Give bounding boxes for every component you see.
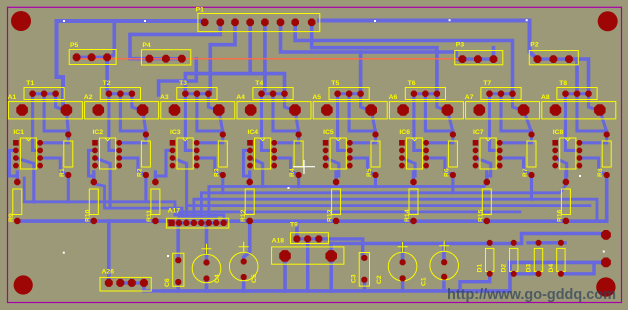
wire R8 bottom down [605,175,608,202]
connector T1 [24,88,64,100]
pad A7-1 [474,104,486,116]
wire C6 top riser [176,221,180,260]
pad IC3-6 [194,148,200,154]
pad T3-2 [194,91,200,97]
svg-text:IC6: IC6 [399,129,410,136]
wire T4 pad3 to A4 pad2 [285,94,294,110]
resistor R1 [64,141,73,167]
svg-text:R15: R15 [477,209,484,222]
svg-text:T1: T1 [26,80,34,87]
svg-text:IC3: IC3 [170,129,181,136]
pad A6-1 [397,104,409,116]
wire IC6 pad3 to R14 top [402,158,415,182]
capacitor C4 body [192,254,221,283]
connector T8 [557,88,597,100]
pad R8 bottom [604,172,610,178]
svg-text:R14: R14 [404,209,411,222]
pad IC2-1 [92,140,98,146]
pad IC2-2 [92,148,98,154]
svg-text:T5: T5 [331,80,339,87]
wire T5 pad2 to R5 [349,94,375,135]
pad R3 bottom [220,172,226,178]
pad T6-1 [411,91,417,97]
pad R14 top [410,179,416,185]
wire R2 bottom down [144,175,147,199]
svg-text:A26: A26 [102,269,115,276]
wire IC2 pad5 to R2 top [119,135,146,143]
wire T1 pad1 to IC1 pad6 [33,94,41,151]
pad R6 top [450,132,456,138]
svg-text:IC5: IC5 [323,129,334,136]
resistor R15 [482,189,491,215]
wire T6 pad3 to A6 pad2 [437,94,446,110]
relay A18 [272,247,344,264]
wire P4 pads link [149,57,181,60]
resistor R2 [141,141,150,167]
pad IC6-5 [423,140,429,146]
pad P4-1 [146,55,154,63]
wire R15 top riser [485,172,488,182]
wire D4 bottom east [561,262,594,273]
wire T8 pad3 to A8 pad2 [589,94,598,110]
pad T5-2 [346,91,352,97]
wire R7 bottom down [530,175,533,199]
wire R3 bottom down [221,175,224,193]
wire P1 pad7 to T7 pad3 [295,22,512,93]
connector T5 [329,88,369,100]
svg-text:D2: D2 [501,264,508,273]
svg-text:R8: R8 [597,168,604,177]
wire P5 pad3 to T2 pad1 [107,57,109,93]
pad T4-1 [258,91,264,97]
wire IC4 pad5 to R4 top [274,135,298,143]
wire R11 top riser [154,172,157,182]
pad A26-4 [140,279,148,287]
pad A18-1 [279,250,291,262]
wire IC5 pad5 to R5 top [350,135,376,143]
pad IC3-1 [170,140,176,146]
connector T2 [100,88,140,100]
svg-text:C1: C1 [421,277,428,286]
svg-text:IC1: IC1 [13,129,24,136]
relay A7 [466,102,540,119]
wire IC3 to R11 top [155,150,172,182]
svg-text:R11: R11 [146,210,153,222]
svg-text:T4: T4 [255,80,263,87]
svg-text:C2: C2 [376,275,383,284]
pad T2-1 [106,91,112,97]
pad R12 bottom [247,218,253,224]
wire T7 pads link [490,92,513,95]
wire C3 bottom drop [363,280,366,291]
resistor R9 [13,189,22,215]
wire R14 top riser [412,172,415,182]
pad R7 bottom [529,172,535,178]
pad T3-1 [182,91,188,97]
pad right lower [601,258,611,268]
pad IC5-4 [323,163,329,169]
pad R5 top [373,132,379,138]
wire to right pad lower [510,261,606,265]
pad IC8-6 [577,148,583,154]
capacitor C5 body [229,252,258,281]
connector A26 [100,277,151,291]
wire T9 pads link [297,237,319,240]
pad A8-1 [550,104,562,116]
svg-text:A7: A7 [465,94,474,101]
wire T4 pad2 to R4 [273,94,299,135]
svg-text:T8: T8 [559,80,567,87]
pad P1-5 [261,19,269,27]
wire T7 pad3 to A7 pad2 [513,94,522,110]
pad IC7-8 [497,163,503,169]
wire T3 pad3 to A3 pad2 [208,94,216,110]
wire C4 bottom drop [205,279,209,291]
pad P1-4 [246,19,254,27]
svg-text:http://www.go-gddq.com: http://www.go-gddq.com [447,286,616,303]
pad P4-3 [178,55,186,63]
wire T4 pad1 to IC4 pad6 [262,94,275,151]
wire cap-diode bus to right pad upper [331,234,606,244]
wire P3 pads link [462,57,493,60]
wire T8 pad3 riser [578,59,589,94]
svg-text:P2: P2 [530,42,539,49]
wire T5 pad1 to IC5 pad6 [338,94,350,151]
pad T6-3 [434,91,440,97]
wire T2 pad3 to A2 pad2 [132,94,141,110]
wire IC7 pad7 to R7 bottom [500,158,532,175]
pad C4 + [204,260,210,266]
wire T4 pads link [262,92,285,95]
pad D2 bottom [511,271,517,277]
wire top layer P5 to P3 [77,58,463,60]
pad T9-3 [315,235,322,242]
wire A18 pad1 drop [283,256,287,291]
wire T7 pad1 to IC7 pad6 [490,94,500,151]
wire T5 pads link [338,92,361,95]
connector T6 [405,88,445,100]
pad D4 bottom [558,271,564,277]
wire T6 pads link [414,92,437,95]
pad T8-1 [562,91,568,97]
pad P1-1 [201,19,209,27]
pad R11 top [152,179,158,185]
pad A5-2 [365,104,377,116]
wire A7 pad2 to R7 top [524,110,532,132]
relay A4 [237,102,311,119]
svg-text:P1: P1 [196,7,205,14]
pad IC7-1 [473,140,479,146]
wire IC1 to R9 top [9,150,17,182]
pad D1 top [487,240,493,246]
pad T9-1 [293,235,300,242]
pad IC4-3 [247,155,253,161]
pad IC5-2 [323,148,329,154]
svg-text:P3: P3 [456,42,465,49]
pad IC8-7 [577,155,583,161]
wire A17 pad4 fan [194,199,597,223]
wire T9 pad1 riser [295,221,298,239]
ic IC7 body [480,138,496,169]
pad IC7-2 [473,148,479,154]
pad T5-1 [334,91,340,97]
wire T5 pad3 to A5 pad2 [361,94,370,110]
svg-text:IC8: IC8 [553,129,564,136]
wire A17 pad8 fan west [24,178,224,223]
resistor R10 [89,189,98,215]
capacitor C6 [173,253,184,286]
pad T1-2 [41,91,47,97]
mounting hole bottom-left [14,275,33,294]
pad C1 + [441,259,447,265]
wire A3 pad2 to R3 top [219,110,223,132]
pad A1-1 [16,104,28,116]
pad A26-1 [105,279,113,287]
pad A8-2 [594,104,606,116]
wire IC7 pad5 to R7 top [500,135,532,143]
pad R9 bottom [14,218,20,224]
pad T4-2 [270,91,276,97]
pad P2-1 [534,55,542,63]
svg-text:R1: R1 [59,168,66,177]
wire C6 bottom drop [176,282,180,291]
pad C5 + [241,259,247,265]
svg-text:C3: C3 [351,274,358,283]
wire T3 pad1 to IC3 pad6 [185,94,196,151]
wire C2 cap top riser [401,243,405,262]
svg-text:D4: D4 [548,264,555,273]
wire riser to P5 pad3 [107,21,114,57]
ic IC2 body [100,138,116,169]
pad R1 top [65,132,71,138]
svg-text:R10: R10 [84,209,91,222]
resistor R16 [561,189,570,215]
pad IC8-2 [552,148,558,154]
wire A4 pad2 to R4 top [295,110,299,132]
wire P1 pad2 to P4 pad1 [130,22,220,58]
pad A3-2 [213,104,225,116]
wire to A1 pad2 [57,21,67,110]
wire bottom bus south [163,289,510,293]
pad R9 top [14,179,20,185]
pad P3-1 [459,55,467,63]
pad A17-8 [221,220,227,226]
pad C4 - [204,276,210,282]
connector P3 [455,51,503,65]
wire T5 pad3 up [359,52,363,94]
pad P1-8 [308,19,316,27]
wire A17 pad5 fan [201,185,566,223]
wire IC2 pad7 to R2 bottom [119,158,146,175]
pad A26-2 [116,279,124,287]
pad IC5-5 [347,140,353,146]
pad T4-3 [281,91,287,97]
pad R14 bottom [410,218,416,224]
pad R3 top [220,132,226,138]
svg-text:R12: R12 [240,209,247,222]
wire P1 pad8 to T6 pad3 [312,22,437,93]
pad IC4-2 [247,148,253,154]
wire T2 pads link [109,92,132,95]
wire A17 pads link [172,221,224,224]
pad IC6-6 [423,148,429,154]
pad P5-1 [73,53,81,61]
relay A6 [389,102,463,119]
pad R2 top [143,132,149,138]
pad C6 bottom [175,279,181,285]
pad IC1-7 [37,155,43,161]
wire A26 pad4 down [144,283,163,291]
pad IC4-6 [271,148,277,154]
pad IC1-4 [13,163,19,169]
wire T1 pads link [33,92,56,95]
wire A26 pad1 riser [107,221,111,283]
pad A26-3 [128,279,136,287]
pad A4-2 [289,104,301,116]
wire bottom bus west [17,219,171,223]
pad IC1-5 [37,140,43,146]
pad IC1-1 [13,140,19,146]
pad R15 bottom [484,218,490,224]
diode D2 [510,248,518,271]
pad P5-2 [88,53,96,61]
pad A17-6 [206,220,212,226]
pad R2 bottom [143,172,149,178]
connector T9 [291,233,329,244]
pad A17-1 [168,220,174,226]
pad IC8-8 [577,163,583,169]
pad R13 bottom [333,218,339,224]
wire A17 pad7 fan west [95,184,216,223]
wire T1 pad3 to A1 pad2 [56,94,65,110]
wire IC6 pad5 to R6 top [426,135,453,143]
svg-text:R13: R13 [327,209,334,222]
pad IC4-4 [247,163,253,169]
wire T8 pads link [566,92,589,95]
wire D1 bottom down [460,274,490,291]
wire R12 top riser [248,172,251,182]
pad IC6-8 [423,163,429,169]
wire IC3 pad7 to R3 bottom [197,158,223,175]
pad T2-3 [129,91,135,97]
wire T3 pads link [185,92,208,95]
wire R5 bottom down [374,175,377,187]
svg-text:C6: C6 [164,278,171,287]
wire P1 pad4 to T3 pad1 [185,22,250,93]
pad IC8-5 [577,140,583,146]
wire A2 pad2 to R2 top [143,110,146,132]
svg-text:R3: R3 [213,168,220,177]
connector T4 [253,88,293,100]
pad R12 top [247,179,253,185]
wire T3 pad2 to R3 [197,94,223,135]
pad R1 bottom [65,172,71,178]
wire A18 pad2 drop [329,256,333,291]
pad T8-3 [585,91,591,97]
svg-text:A1: A1 [8,94,17,101]
pad P2-2 [550,55,558,63]
pad A17-7 [213,220,219,226]
pad C3 top [361,255,367,261]
pad IC7-7 [497,155,503,161]
svg-text:R16: R16 [556,209,563,222]
pad IC5-8 [347,163,353,169]
pad A3-1 [169,104,181,116]
wire R9 top riser [16,172,19,182]
pad IC7-6 [497,148,503,154]
svg-text:A6: A6 [389,94,398,101]
wire IC8 pad7 to R8 bottom [579,158,606,175]
pad A2-2 [137,104,149,116]
svg-text:P4: P4 [142,42,151,49]
pad A5-1 [321,104,333,116]
mounting hole bottom-right [596,277,615,296]
pad IC6-3 [399,155,405,161]
wire IC5 pad7 to R5 bottom [350,158,376,175]
wire IC5 pad3 to R13 top [326,158,339,182]
wire T9 pad2 drop [306,239,309,291]
wire A17 pad6 fan [209,183,487,223]
pad IC8-4 [552,163,558,169]
wire R13 top riser [334,172,337,182]
resistor R12 [245,189,254,215]
pad IC6-2 [399,148,405,154]
pad T3-3 [205,91,211,97]
resistor R4 [294,141,303,167]
ic IC3 body [177,138,193,169]
pad right upper [601,230,611,240]
wire A6 pad2 to R6 top [447,110,453,132]
svg-text:T2: T2 [103,80,111,87]
wire R6 bottom down [451,175,454,193]
pad R5 bottom [373,172,379,178]
diode D4 [557,248,565,271]
pad IC4-7 [271,155,277,161]
pad IC1-2 [13,148,19,154]
pad T1-1 [29,91,35,97]
relay A8 [542,102,616,119]
wire P1 right to P2 pad1 [319,21,538,60]
svg-text:C4: C4 [214,274,221,283]
wire IC8 pad3 to R16 top [555,158,567,182]
wire IC6 pad7 to R6 bottom [426,158,453,175]
wire R8 bottom to bus [605,175,609,222]
svg-text:T9: T9 [290,222,298,229]
pad T7-3 [509,91,515,97]
pad T6-2 [422,91,428,97]
pad R7 top [529,132,535,138]
connector T3 [177,88,217,100]
pad IC2-8 [116,163,122,169]
svg-text:A2: A2 [84,94,93,101]
pad IC2-4 [92,163,98,169]
pad P1-7 [291,19,299,27]
wire IC8 pad5 to R8 top [579,135,606,143]
wire A17 pad2 fan [179,212,520,223]
resistor R8 [602,141,611,167]
wire T2 pad1 to IC2 pad6 [109,94,119,151]
svg-text:A8: A8 [541,94,550,101]
resistor R13 [332,189,341,215]
pad A2-1 [93,104,105,116]
pad A4-1 [245,104,257,116]
svg-text:R4: R4 [289,168,296,177]
wire IC7 pad3 to R15 top [476,158,491,182]
wire IC1 pad5 to R1 top [40,135,68,143]
wire C5 bottom drop [242,277,246,291]
pad D4 top [558,240,564,246]
wire T8 pad2 to R8 [577,94,607,135]
